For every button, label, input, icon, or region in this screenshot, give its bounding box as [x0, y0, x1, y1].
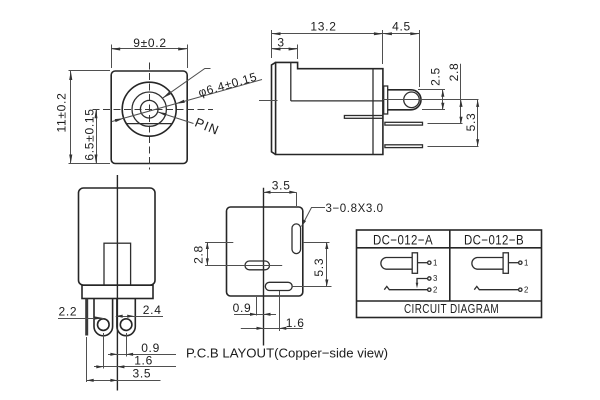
pcb bottom slot centerline — [292, 286, 331, 288]
pcb bottom slot extension line — [279, 291, 281, 331]
side view lug hole — [404, 92, 420, 108]
svg-text:φ6.4±0.15: φ6.4±0.15 — [197, 70, 259, 100]
side view pin 2 — [385, 145, 423, 148]
dimension 4.5 extension line — [419, 30, 421, 87]
svg-text:9±0.2: 9±0.2 — [133, 36, 166, 50]
svg-text:3−0.8X3.0: 3−0.8X3.0 — [326, 203, 384, 215]
dimension 3.5 line and arrows — [87, 380, 161, 382]
front view outer circle (6.4mm barrel) — [122, 82, 176, 136]
pin A center extension line — [103, 333, 105, 369]
left pin extension line — [86, 337, 88, 382]
svg-text:3.5: 3.5 — [272, 179, 291, 193]
svg-text:DC−012−B: DC−012−B — [464, 232, 524, 247]
front view horizontal centerline — [93, 109, 214, 111]
side view flange — [384, 86, 388, 114]
dimension 9 +/-0.2 line and arrows — [111, 48, 187, 50]
svg-text:PIN: PIN — [193, 115, 222, 138]
svg-text:3: 3 — [277, 36, 284, 50]
wire A terminal 2 with spring contact — [384, 286, 427, 289]
dimension 2.5 line and arrows — [442, 90, 444, 110]
side view interior vertical line right — [372, 69, 374, 155]
svg-text:11±0.2: 11±0.2 — [55, 93, 69, 133]
bottom view centerline — [116, 175, 118, 391]
pcb bottom slot pad — [265, 282, 292, 290]
circuit table outer box — [357, 230, 542, 318]
side view pin 1 extension line — [428, 123, 463, 125]
bottom view pin A hole — [98, 319, 110, 331]
diameter 6.4 +/-0.15 dimension line — [112, 80, 262, 122]
side view interior tab — [344, 116, 383, 119]
bottom view body — [79, 188, 156, 285]
jack A barrel symbol — [381, 258, 413, 270]
dimension 11 +/-0.2 extension lines — [69, 70, 111, 72]
svg-text:2: 2 — [524, 286, 528, 295]
wire A terminal 1 — [418, 262, 428, 264]
dimension 2.4 line and arrows — [116, 316, 163, 318]
side view pin 1 — [385, 122, 423, 125]
side view body outline — [276, 62, 383, 154]
dimension 13.2 line and arrows — [272, 33, 383, 35]
bottom view base plate — [82, 285, 153, 298]
svg-text:2: 2 — [433, 286, 437, 295]
dimension 0.9 line and arrows — [108, 354, 176, 356]
terminal B circle 2 — [519, 288, 522, 291]
jack A tip contact bar — [412, 253, 417, 273]
svg-text:13.2: 13.2 — [310, 19, 336, 33]
pcb top reference line right — [303, 242, 330, 244]
dimension 5.3 line and arrows — [477, 100, 479, 146]
svg-text:1: 1 — [433, 259, 437, 268]
bottom view pin B hole — [120, 319, 132, 331]
dimension 6.5 +/-0.15 line and arrows — [96, 109, 98, 163]
svg-text:6.5±0.15: 6.5±0.15 — [83, 108, 97, 160]
svg-text:2.5: 2.5 — [428, 67, 442, 86]
pcb left slot centerline — [205, 265, 282, 267]
circuit table bottom strip line — [357, 300, 542, 302]
pcb left slot pad — [245, 261, 270, 270]
terminal B circle 1 — [519, 261, 522, 264]
svg-text:2.4: 2.4 — [143, 303, 162, 317]
pcb dimension 1.6 line and arrows — [241, 328, 303, 330]
pcb dimension 0.9 line and arrows — [234, 314, 276, 316]
svg-text:CIRCUIT DIAGRAM: CIRCUIT DIAGRAM — [404, 301, 499, 316]
front view chord line — [127, 123, 173, 125]
dimension 1.6 line and arrows — [94, 366, 176, 368]
svg-text:4.5: 4.5 — [392, 19, 411, 33]
svg-text:3: 3 — [433, 274, 437, 283]
pcb dimension 2.8 line and arrows — [207, 242, 209, 265]
svg-text:DC−012−A: DC−012−A — [373, 232, 433, 247]
side view left edge outer line — [272, 62, 276, 154]
pcb dimension 3.5 line and arrows — [264, 192, 297, 194]
svg-text:2.8: 2.8 — [192, 245, 206, 264]
circuit table divider — [449, 230, 451, 301]
side view interior vertical line — [290, 62, 292, 101]
pcb outline — [227, 207, 303, 296]
dimension 9 +/-0.2 extension lines — [111, 45, 113, 69]
svg-text:1.6: 1.6 — [286, 316, 305, 330]
side view pin 2 extension line — [428, 146, 479, 148]
dimension 2.8 line and arrows — [460, 64, 462, 124]
bottom view pin B outline — [117, 299, 135, 336]
bottom view inner slot — [104, 243, 131, 285]
wire A terminal 3 with switch arrow — [417, 279, 428, 284]
lug top reference line — [418, 89, 445, 91]
front view body square — [111, 71, 187, 164]
pcb top reference line left — [205, 242, 233, 244]
pcb top slot pad — [292, 224, 301, 254]
front view middle circle — [132, 92, 166, 126]
svg-text:5.3: 5.3 — [312, 258, 326, 277]
svg-text:2.8: 2.8 — [447, 63, 461, 82]
pcb dimension 3.5 extension line — [296, 192, 298, 206]
pcb left slot extension line — [256, 297, 258, 316]
dimension 3 extension line — [297, 45, 299, 60]
side view terminal lug — [388, 90, 421, 110]
jack B barrel symbol — [472, 258, 504, 270]
pcb vertical centerline — [263, 188, 265, 346]
dimension 11 +/-0.2 line and arrows — [70, 71, 72, 164]
svg-text:P.C.B LAYOUT(Copper−side view): P.C.B LAYOUT(Copper−side view) — [186, 346, 388, 361]
wire B terminal 1 — [508, 262, 518, 264]
slot spec leader line — [302, 208, 326, 227]
svg-text:2.2: 2.2 — [59, 304, 78, 318]
svg-text:3.5: 3.5 — [133, 366, 152, 380]
dimension 13.2 extension lines — [271, 30, 273, 58]
wire B terminal 2 with spring contact — [474, 286, 518, 289]
terminal A circle 1 — [428, 261, 431, 264]
dimension 3 line and arrows — [272, 48, 298, 50]
svg-text:0.9: 0.9 — [233, 301, 252, 315]
bottom view left pin bar — [85, 299, 88, 336]
terminal A circle 3 — [428, 277, 431, 280]
pcb dimension 5.3 line and arrows — [326, 242, 328, 287]
dimension 4.5 line and arrows — [383, 33, 419, 35]
pin B center extension line — [126, 333, 128, 357]
lug bottom reference line — [422, 109, 445, 111]
front view inner circle (center pin) — [140, 100, 158, 118]
front view vertical centerline — [149, 63, 151, 170]
svg-text:5.3: 5.3 — [464, 113, 478, 132]
PIN leader line — [158, 112, 194, 124]
leader line to barrel top — [163, 69, 211, 99]
dimension 2.2 line and arrow — [58, 318, 103, 320]
terminal A circle 2 — [428, 288, 431, 291]
side view centerline through lug — [383, 99, 479, 101]
side view centerline stub — [259, 100, 278, 102]
side view interior horizontal line — [291, 100, 383, 102]
bottom view pin A outline — [94, 299, 113, 336]
jack B tip contact bar — [503, 253, 508, 273]
circuit table title underline — [357, 247, 542, 249]
svg-text:1: 1 — [524, 259, 528, 268]
